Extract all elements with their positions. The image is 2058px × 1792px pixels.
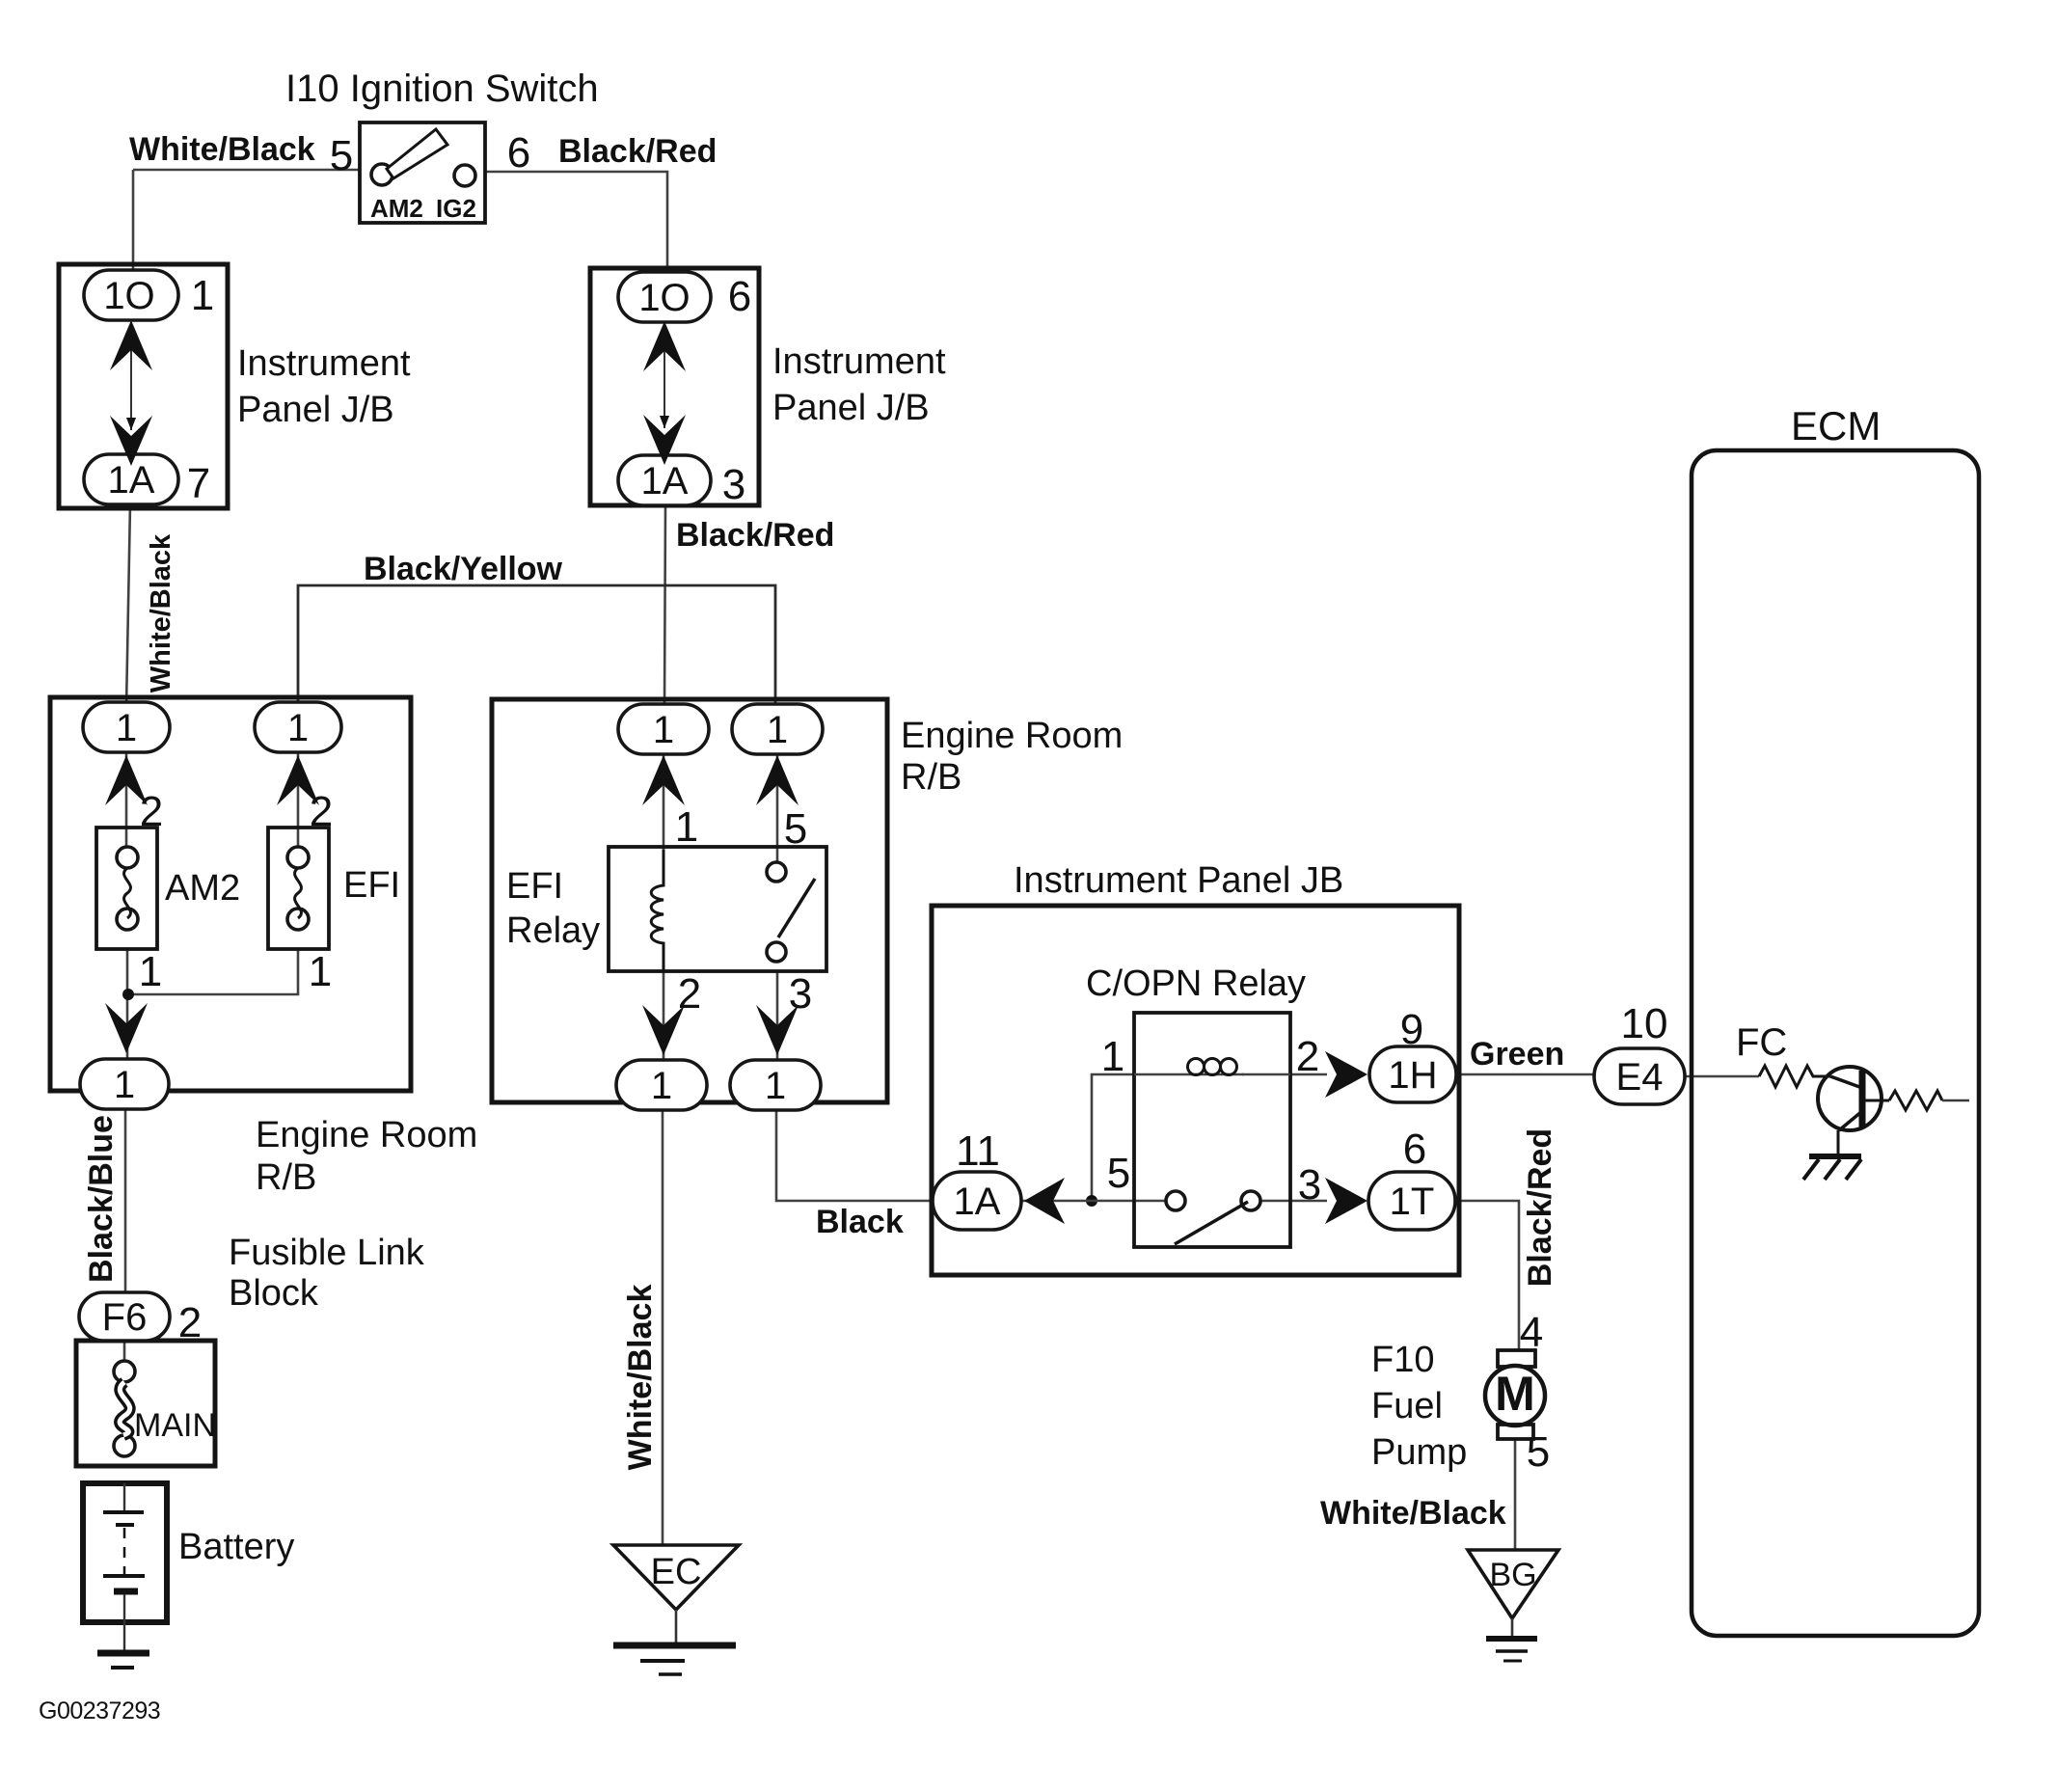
svg-text:White/Black: White/Black	[622, 1285, 659, 1471]
svg-text:R/B: R/B	[901, 757, 961, 798]
svg-text:EFI: EFI	[343, 865, 400, 906]
svg-text:Black: Black	[816, 1204, 904, 1240]
svg-text:Block: Block	[229, 1273, 319, 1314]
svg-text:10: 10	[1621, 1000, 1668, 1047]
svg-text:2: 2	[1296, 1033, 1319, 1080]
svg-text:5: 5	[1527, 1428, 1550, 1476]
svg-text:1: 1	[653, 709, 674, 751]
svg-text:Instrument: Instrument	[772, 341, 946, 382]
svg-text:6: 6	[1403, 1126, 1426, 1173]
svg-text:IG2: IG2	[436, 194, 476, 223]
svg-text:1: 1	[139, 948, 162, 995]
svg-text:MAIN: MAIN	[134, 1407, 216, 1444]
svg-text:Battery: Battery	[178, 1527, 294, 1567]
svg-text:3: 3	[1298, 1161, 1321, 1208]
svg-text:1: 1	[116, 707, 137, 749]
svg-text:1: 1	[675, 803, 698, 851]
svg-text:F6: F6	[102, 1296, 148, 1339]
svg-text:1: 1	[287, 707, 309, 749]
svg-text:1O: 1O	[103, 275, 154, 317]
svg-text:3: 3	[789, 970, 812, 1018]
svg-text:2: 2	[140, 788, 163, 835]
svg-text:Green: Green	[1470, 1036, 1564, 1072]
svg-text:1: 1	[651, 1065, 672, 1107]
svg-text:White/Black: White/Black	[1320, 1495, 1506, 1532]
svg-text:C/OPN Relay: C/OPN Relay	[1086, 964, 1306, 1004]
svg-text:1: 1	[309, 948, 332, 995]
svg-text:11: 11	[956, 1127, 1000, 1175]
svg-text:FC: FC	[1736, 1021, 1787, 1064]
svg-text:AM2: AM2	[370, 194, 423, 223]
svg-text:1: 1	[114, 1064, 135, 1106]
svg-text:Panel J/B: Panel J/B	[237, 390, 394, 430]
svg-text:Engine Room: Engine Room	[901, 716, 1123, 756]
svg-text:Pump: Pump	[1371, 1432, 1467, 1473]
svg-text:BG: BG	[1489, 1557, 1536, 1593]
svg-text:6: 6	[728, 273, 751, 320]
svg-text:I10 Ignition Switch: I10 Ignition Switch	[285, 68, 599, 110]
svg-text:1O: 1O	[638, 277, 690, 319]
svg-text:1A: 1A	[641, 460, 689, 502]
svg-text:G00237293: G00237293	[39, 1697, 160, 1724]
svg-text:1A: 1A	[108, 459, 155, 502]
svg-text:1: 1	[767, 709, 788, 751]
svg-text:Black/Red: Black/Red	[676, 517, 834, 554]
svg-text:Engine Room: Engine Room	[256, 1115, 477, 1155]
svg-text:Instrument: Instrument	[237, 343, 411, 384]
svg-text:2: 2	[178, 1299, 202, 1346]
svg-text:2: 2	[678, 970, 701, 1018]
svg-text:4: 4	[1520, 1309, 1543, 1356]
svg-text:E4: E4	[1616, 1056, 1664, 1099]
svg-text:White/Black: White/Black	[129, 131, 315, 168]
svg-text:Black/Red: Black/Red	[1522, 1128, 1558, 1287]
svg-text:3: 3	[722, 461, 745, 508]
svg-text:1: 1	[191, 272, 214, 319]
svg-text:Fusible Link: Fusible Link	[229, 1233, 425, 1273]
svg-text:EFI: EFI	[506, 866, 563, 907]
svg-text:EC: EC	[651, 1552, 702, 1592]
svg-text:2: 2	[310, 788, 333, 835]
svg-text:Black/Blue: Black/Blue	[83, 1115, 120, 1283]
svg-text:F10: F10	[1371, 1340, 1434, 1380]
svg-text:Black/Yellow: Black/Yellow	[364, 551, 563, 587]
svg-text:1T: 1T	[1390, 1181, 1435, 1223]
svg-text:1A: 1A	[954, 1181, 1001, 1223]
svg-text:Relay: Relay	[506, 910, 600, 951]
svg-text:White/Black: White/Black	[146, 533, 176, 692]
svg-text:5: 5	[330, 132, 353, 179]
svg-text:Fuel: Fuel	[1371, 1386, 1443, 1426]
svg-text:9: 9	[1400, 1006, 1423, 1053]
svg-text:ECM: ECM	[1791, 403, 1881, 448]
svg-text:R/B: R/B	[256, 1157, 316, 1198]
svg-text:AM2: AM2	[165, 868, 240, 909]
svg-text:5: 5	[784, 805, 807, 853]
svg-text:Black/Red: Black/Red	[558, 133, 717, 170]
svg-text:Instrument Panel JB: Instrument Panel JB	[1014, 860, 1343, 901]
svg-text:1H: 1H	[1388, 1054, 1437, 1097]
svg-text:M: M	[1495, 1367, 1535, 1421]
svg-text:1: 1	[1101, 1033, 1124, 1080]
svg-text:6: 6	[507, 129, 530, 176]
svg-text:1: 1	[765, 1065, 786, 1107]
svg-text:5: 5	[1107, 1150, 1130, 1197]
svg-text:7: 7	[187, 460, 210, 507]
svg-text:Panel J/B: Panel J/B	[772, 388, 930, 428]
